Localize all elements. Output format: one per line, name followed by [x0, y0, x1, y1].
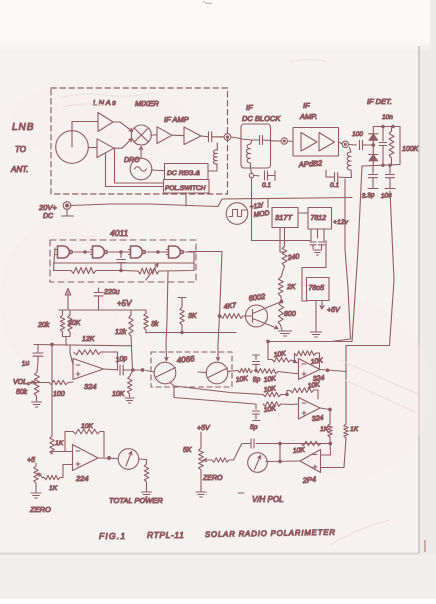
resistor 10K row1	[238, 368, 253, 372]
NAND gate 3	[131, 246, 146, 258]
resistor 20K b	[69, 310, 71, 315]
svg-text:+5: +5	[27, 457, 35, 464]
svg-text:+5V: +5V	[197, 425, 211, 432]
20V input connector	[63, 202, 71, 210]
svg-text:IF: IF	[246, 103, 253, 112]
op-amp4 output node	[108, 457, 111, 460]
svg-text:VOL.: VOL.	[13, 379, 29, 386]
svg-text:20V+: 20V+	[38, 203, 57, 212]
gate input stubs	[56, 250, 169, 255]
svg-text:1K: 1K	[49, 485, 58, 492]
control arrow switch 1	[165, 344, 168, 361]
resistor 10K row2b	[263, 402, 281, 406]
resistor 12k	[130, 310, 132, 315]
resistor 1K vertical left bus	[50, 436, 54, 454]
resistor 4K7	[221, 314, 244, 319]
svg-text:12k: 12k	[115, 329, 127, 336]
junction node below DC block	[249, 173, 253, 177]
resistor 240	[282, 246, 287, 266]
4066 switch 2	[206, 362, 228, 384]
volume pot 50k	[37, 362, 38, 372]
wire comparator to VH meter	[266, 460, 300, 463]
IF amp triangle 1	[157, 127, 172, 144]
wire DC block node down to regulator ground bus	[252, 178, 311, 241]
svg-text:IF AMP: IF AMP	[164, 115, 189, 124]
svg-text:1K: 1K	[350, 426, 359, 433]
LNB output connector	[224, 134, 231, 141]
IF amp triangle 2	[184, 127, 201, 145]
capacitors at 7812 output	[311, 229, 324, 241]
wire pol switch to 20V rail	[185, 193, 187, 206]
svg-text:FIG.1: FIG.1	[99, 531, 126, 541]
wire 4011 gate3 to switch1 control	[166, 272, 168, 345]
svg-text:317T: 317T	[275, 213, 294, 222]
DC block output wire	[271, 140, 282, 142]
resistor 10K zero	[212, 458, 229, 462]
NAND gate 4	[169, 246, 184, 258]
capacitor 220u	[98, 288, 100, 293]
detector bottom rail	[362, 165, 400, 167]
regulator 317T box	[272, 208, 298, 228]
svg-text:V/H POL: V/H POL	[252, 495, 284, 504]
svg-text:0.1: 0.1	[330, 182, 339, 189]
svg-text:+12v: +12v	[333, 219, 349, 226]
detector load resistor 100K	[391, 127, 393, 132]
IF amp triangle A	[301, 133, 317, 152]
resistor 100	[49, 380, 68, 384]
control arrow switch 2	[216, 344, 219, 361]
IF amp triangle B	[319, 133, 335, 152]
NAND gate 1	[58, 246, 73, 258]
svg-text:DC REG.&: DC REG.&	[167, 170, 200, 177]
IF amp box	[293, 128, 339, 157]
ground under 5K pot	[196, 492, 206, 497]
transistor emitter ground	[279, 331, 292, 336]
series capacitor in DC block	[260, 136, 263, 145]
svg-text:2K: 2K	[286, 284, 296, 291]
regulator 7812 box	[308, 208, 332, 230]
svg-text:5p: 5p	[250, 424, 258, 431]
label V/H POL	[238, 492, 244, 494]
svg-text:50k: 50k	[16, 389, 28, 396]
op-amp 324 third	[299, 398, 321, 420]
svg-text:1u: 1u	[21, 360, 30, 368]
capacitor 1u	[34, 345, 38, 353]
svg-text:IF DET.: IF DET.	[367, 97, 392, 106]
svg-text:DC BLOCK: DC BLOCK	[242, 114, 281, 123]
capacitor 5p row1	[253, 355, 260, 360]
resistor 1K right	[344, 424, 348, 438]
wire rail to 317T input	[267, 199, 269, 208]
svg-text:ZERO: ZERO	[29, 505, 51, 514]
meter load resistor	[139, 459, 147, 464]
DRO oscillator circle	[130, 158, 152, 180]
+5V arrow	[67, 292, 69, 310]
wire op-amp rail	[34, 345, 132, 346]
comparator op-amp 2P4 (left pointing)	[300, 450, 321, 473]
svg-text:IF: IF	[303, 101, 310, 110]
op-amp3 feedback resistor 10K	[286, 391, 288, 395]
svg-text:POL.SWITCH: POL.SWITCH	[165, 185, 206, 192]
wire to detector cap	[349, 144, 357, 147]
LNA lower triangle	[97, 139, 114, 158]
feed horn circle	[56, 131, 89, 164]
wire IF amp1 to IF amp2	[172, 134, 184, 136]
op-amp2 output wire	[320, 370, 346, 425]
wire upper LNA to mixer	[113, 121, 120, 123]
zero pot left	[35, 463, 37, 466]
wire feed to lower LNA	[88, 147, 97, 149]
svg-text:10K: 10K	[292, 447, 305, 455]
capacitor 10u to ground	[389, 165, 391, 173]
7805 ground lead	[315, 301, 317, 332]
resistor 800	[280, 296, 283, 302]
wire IF amp2 to coupling cap	[201, 135, 208, 138]
NAND gate 2	[93, 246, 108, 258]
svg-text:RTPL-11: RTPL-11	[147, 530, 184, 540]
svg-text:DC: DC	[43, 213, 54, 220]
timing capacitor in 4011	[120, 252, 122, 258]
wire DRO to DC REG box	[152, 169, 165, 172]
5K zero pot	[200, 432, 202, 448]
svg-text:APdB2: APdB2	[298, 158, 324, 169]
op-amp 224 total power	[73, 445, 99, 471]
4066 dashed box	[151, 352, 232, 387]
svg-text:7812: 7812	[311, 215, 327, 222]
DC REG and POL switch box	[165, 164, 209, 180]
detector coupling capacitor 100	[360, 140, 363, 150]
svg-text:100K: 100K	[402, 146, 419, 153]
317T output pin	[280, 228, 285, 253]
ground under volume pot	[32, 402, 42, 407]
ground under zero pot left	[31, 493, 41, 498]
LNA upper triangle	[98, 113, 113, 132]
wire feed to upper LNA	[72, 122, 98, 132]
node at detector input	[372, 144, 375, 147]
wiper wire to resistor 100	[28, 383, 49, 386]
op-amp2 feedback resistor 10K	[294, 354, 296, 362]
svg-text:5K: 5K	[183, 447, 192, 454]
resistor 10K row1b	[256, 369, 278, 374]
svg-text:10n: 10n	[382, 114, 393, 121]
wire 1K to comparator inputs	[321, 437, 331, 455]
op-amp3 output wire	[320, 408, 330, 424]
svg-text:3k: 3k	[151, 321, 159, 328]
bypass capacitor 0.1 under IF amp	[331, 176, 334, 178]
svg-text:100: 100	[352, 131, 363, 138]
capacitor at LNB output	[209, 132, 212, 142]
svg-text:224: 224	[75, 474, 89, 483]
op-amp1 output wire	[104, 368, 118, 371]
svg-text:1K: 1K	[55, 440, 64, 447]
resistor 1K left	[328, 424, 332, 437]
4066 switch 1	[154, 362, 176, 384]
resistor 3K second with cap top	[178, 298, 186, 308]
4011 dashed box	[50, 240, 196, 282]
svg-text:324: 324	[84, 382, 97, 391]
resistor 2K	[281, 266, 285, 277]
svg-text:78o5: 78o5	[309, 285, 325, 292]
svg-text:DRO: DRO	[124, 157, 140, 164]
bypass capacitor 0.1 below DC block	[254, 175, 259, 177]
svg-text:0.1: 0.1	[262, 182, 271, 189]
svg-text:3K: 3K	[188, 313, 197, 320]
wire detector video down right side	[268, 166, 362, 342]
output bias inductor	[213, 150, 217, 164]
resistor 1K horizontal	[44, 475, 60, 479]
svg-text:10K: 10K	[81, 423, 94, 430]
wire 317T to 7812	[298, 212, 308, 214]
main left bus down	[51, 345, 53, 437]
svg-text:100: 100	[53, 391, 65, 398]
detector diode D1	[372, 127, 374, 135]
20V supply rail wire	[70, 198, 352, 207]
svg-text:12K: 12K	[82, 336, 95, 343]
wire IF amp to detector connector	[339, 142, 343, 144]
svg-text:4011: 4011	[110, 228, 129, 238]
svg-text:220u: 220u	[103, 289, 120, 296]
resistor 10K after 10p	[130, 370, 133, 376]
IF detector connector	[342, 141, 348, 147]
wire detector reference down right side	[346, 191, 394, 372]
svg-text:MIXER: MIXER	[135, 99, 159, 108]
wire mid rail	[146, 332, 236, 334]
resistor 10K row2a	[263, 392, 281, 396]
svg-text:800: 800	[284, 311, 296, 318]
op-amp 324 first	[73, 359, 104, 380]
V/H POL meter	[248, 453, 268, 473]
svg-text:10K: 10K	[112, 391, 125, 398]
switch1 lower wires to second op-amp rows	[170, 383, 263, 395]
wire LNA bias lines	[106, 153, 164, 186]
faint bleed-through marks	[60, 60, 420, 545]
svg-text:+5V: +5V	[327, 307, 341, 314]
shunt inductor in DC block	[251, 140, 253, 144]
op-amp 324 second	[299, 359, 321, 380]
capacitor 5p row2	[255, 404, 257, 409]
svg-text:TOTAL POWER: TOTAL POWER	[109, 496, 163, 505]
right enclosure wire	[331, 179, 351, 342]
svg-text:2P4: 2P4	[301, 475, 316, 485]
svg-text:20K: 20K	[67, 320, 81, 327]
wire 240 junction	[280, 251, 285, 253]
svg-text:TO: TO	[15, 145, 26, 154]
detector diode D2	[372, 145, 374, 154]
svg-text:ZERO: ZERO	[202, 475, 223, 482]
resistor 20k a	[62, 310, 64, 315]
wire to op-amp4 minus	[52, 452, 73, 455]
connector after DC block	[281, 138, 287, 144]
IF DC block box	[241, 124, 271, 168]
svg-text:1K: 1K	[320, 426, 329, 433]
svg-text:5p: 5p	[252, 376, 261, 384]
4011 lower bus wire	[54, 262, 195, 264]
svg-text:LNB: LNB	[12, 122, 34, 133]
resistor 10K comparator	[301, 441, 321, 445]
svg-text:ANT.: ANT.	[10, 165, 29, 174]
svg-text:LNAs: LNAs	[93, 98, 117, 107]
svg-text:+5V: +5V	[117, 299, 132, 308]
wire 7812 area to 7805	[302, 241, 326, 302]
switch2 output wire	[228, 371, 239, 372]
resistor 3k first	[145, 310, 147, 313]
svg-text:3.3p: 3.3p	[361, 192, 375, 200]
op-amp4 feedback resistor 10K	[65, 432, 73, 452]
op-amp1 feedback resistor	[70, 353, 73, 366]
transistor 6002	[246, 305, 268, 327]
wire 4011 gate4 output to switch2 control	[189, 252, 223, 345]
mixer circle with X	[131, 125, 151, 145]
detector output inductor	[350, 148, 352, 153]
wire DRO to mixer	[139, 147, 142, 159]
regulator 7805 box	[307, 278, 330, 301]
wire connector to DC block	[231, 137, 241, 139]
wires between gates	[74, 251, 93, 253]
comparator wire top	[256, 443, 330, 445]
wire DC REG to output inductor	[208, 164, 217, 171]
square wave modulator oscillator	[226, 203, 248, 225]
detector right wire	[399, 127, 401, 165]
variable resistor in 4011	[138, 268, 159, 274]
LNB dashed enclosure	[51, 88, 228, 194]
ground at 20V input	[62, 209, 74, 216]
capacitor 10p	[120, 365, 123, 375]
node from detector line	[267, 340, 270, 343]
feedback wire with resistors	[54, 248, 72, 271]
detector filter capacitor 10n	[382, 127, 384, 142]
resistor 10K to minus input	[272, 357, 291, 362]
wire mixer to IF amp	[151, 134, 157, 136]
series capacitor to comparator	[251, 439, 254, 448]
+5V rail wire	[59, 309, 146, 311]
svg-text:324: 324	[311, 415, 323, 423]
total power meter	[118, 449, 139, 470]
capacitor 3.3p to ground	[372, 166, 374, 174]
svg-text:AMP.: AMP.	[299, 112, 317, 121]
label +5V output	[320, 301, 324, 310]
detector top rail	[373, 126, 400, 128]
wire lower LNA to mixer	[114, 147, 122, 149]
svg-text:4066: 4066	[176, 354, 195, 365]
svg-text:20k: 20k	[37, 322, 50, 329]
